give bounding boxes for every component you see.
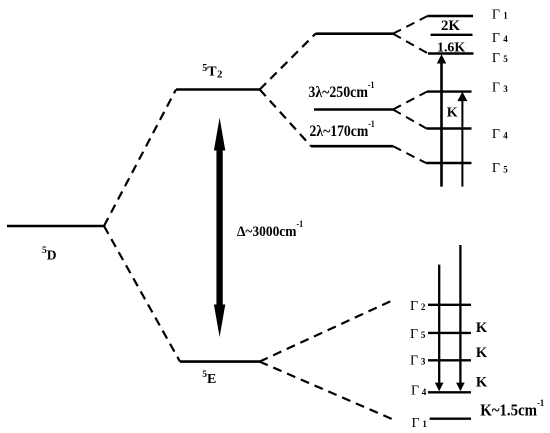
svg-text:2: 2 — [421, 302, 426, 312]
svg-text:K~1.5cm-1: K~1.5cm-1 — [480, 399, 544, 420]
level 5D line — [7, 225, 104, 228]
arrow Delta double-headed — [214, 118, 225, 337]
wire dashed upper level to Gamma1 — [393, 16, 428, 34]
svg-text:Γ: Γ — [492, 161, 500, 176]
wire dashed 5D to 5T2 — [104, 90, 176, 227]
level 3-lambda line — [314, 108, 393, 111]
level Gamma4 (top) line — [431, 34, 473, 36]
svg-text:5: 5 — [421, 330, 426, 340]
wire dashed 3-lambda to Gamma3 — [393, 92, 427, 110]
svg-text:2λ~170cm-1: 2λ~170cm-1 — [310, 119, 376, 140]
svg-text:Γ: Γ — [492, 51, 500, 66]
wire dashed 5D to 5E — [104, 226, 180, 362]
svg-text:Γ: Γ — [410, 327, 418, 342]
svg-text:Γ: Γ — [492, 8, 500, 23]
level 2-lambda line — [311, 145, 393, 148]
level Gamma5 (bottom) line — [428, 332, 471, 334]
svg-text:Γ: Γ — [492, 31, 500, 46]
svg-text:5: 5 — [503, 54, 508, 64]
svg-text:2K: 2K — [441, 18, 460, 34]
svg-text:1.6K: 1.6K — [437, 39, 466, 54]
svg-text:K: K — [476, 374, 488, 390]
arrow down left (bottom cluster) — [435, 265, 444, 392]
svg-text:1: 1 — [503, 10, 508, 20]
level Gamma4 (bottom) line — [428, 391, 471, 393]
wire dashed upper level to Gamma5 — [393, 34, 428, 54]
level Gamma3 (middle) line — [427, 90, 472, 92]
svg-text:Γ: Γ — [410, 299, 418, 314]
svg-text:Γ: Γ — [412, 416, 420, 431]
level Gamma1 (bottom) line — [430, 418, 471, 420]
level Gamma4 (middle) line — [427, 127, 472, 129]
level Gamma5 (top) line — [428, 52, 474, 54]
wire dashed 2-lambda to Gamma5 — [393, 146, 426, 163]
level Gamma2 (bottom) line — [428, 304, 471, 306]
wire dashed 5T2 to upper level — [260, 34, 316, 90]
level Gamma1 (top) line — [428, 15, 474, 17]
wire dashed 5E to Gamma1 (bottom) — [260, 362, 393, 420]
level 5T2 line — [176, 88, 260, 91]
wire dashed 5E to Gamma2 — [260, 299, 396, 362]
wire dashed 5T2 to 2-lambda level — [260, 90, 311, 147]
svg-text:K: K — [447, 105, 458, 120]
svg-text:K: K — [476, 320, 488, 336]
arrow thin up (K transition) — [457, 92, 467, 187]
level 5E line — [180, 360, 260, 363]
svg-text:4: 4 — [503, 130, 508, 140]
arrow thick up (2K transition) — [437, 54, 446, 186]
svg-text:5: 5 — [503, 164, 508, 174]
svg-text:4: 4 — [503, 34, 508, 44]
svg-text:Γ: Γ — [492, 127, 500, 142]
svg-text:Γ: Γ — [411, 384, 419, 399]
svg-text:Γ: Γ — [410, 354, 418, 369]
svg-text:4: 4 — [422, 387, 427, 397]
svg-text:3: 3 — [421, 357, 426, 367]
wire dashed 3-lambda to Gamma4 — [393, 110, 427, 129]
level Gamma3 (bottom) line — [428, 359, 471, 361]
level Gamma5 (middle) line — [426, 162, 472, 164]
level upper (top branch) line — [316, 32, 394, 35]
svg-text:1: 1 — [422, 419, 427, 429]
svg-text:K: K — [476, 345, 488, 361]
arrow down right (bottom cluster) — [456, 245, 465, 391]
svg-text:3: 3 — [503, 84, 508, 94]
svg-text:Γ: Γ — [492, 81, 500, 96]
svg-text:3λ~250cm-1: 3λ~250cm-1 — [308, 80, 374, 101]
